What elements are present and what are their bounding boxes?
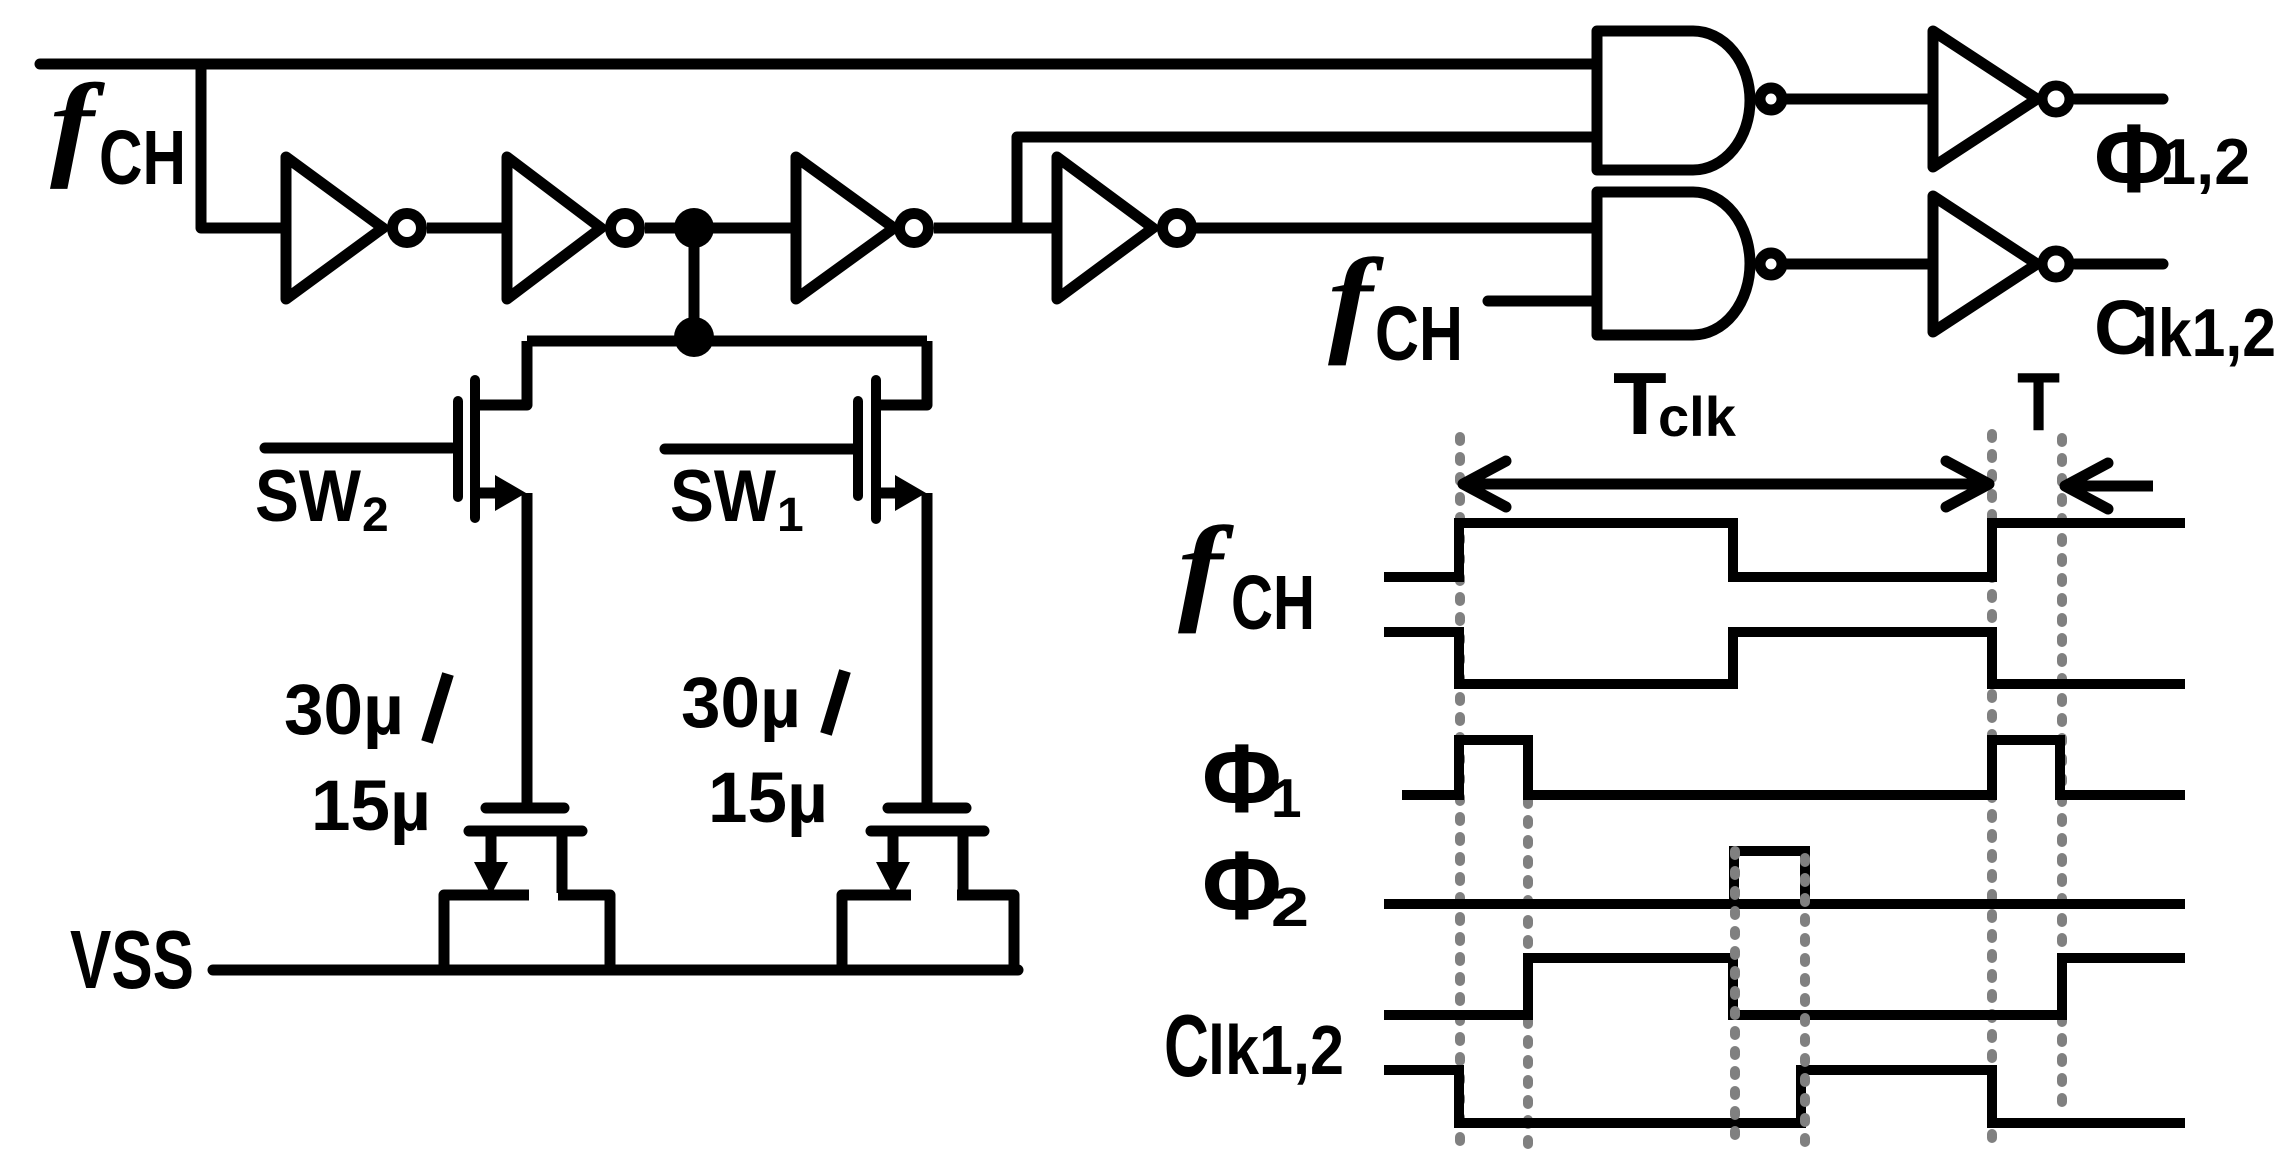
inverter U5 — [1933, 31, 2037, 167]
timing gridline t1 — [1455, 437, 1465, 1144]
capacitor C2 bulk arrowhead — [474, 862, 508, 895]
wire: U1 output to U2 input — [427, 223, 507, 234]
label 30u/15u for C2 — [284, 671, 448, 846]
timing gridline t5 — [1987, 434, 1997, 1148]
node B junction dot — [674, 317, 714, 357]
MOS capacitor C2 — [444, 808, 610, 965]
wire: vertical drop from bus to inverter chain input — [201, 59, 286, 228]
wire: inverter U6 output (Clk 1,2) — [2075, 259, 2163, 270]
wire: fCH stub into NAND G2 input B — [1488, 296, 1597, 307]
svg-text:1,2: 1,2 — [2160, 125, 2250, 198]
inverter U4 — [1057, 157, 1153, 299]
svg-text:CH: CH — [1231, 560, 1315, 646]
svg-text:CH: CH — [1375, 291, 1463, 377]
timing: Tclk double-headed span arrow — [1462, 461, 1990, 507]
wire: inverter U5 output (phi 1,2) — [2075, 94, 2163, 105]
wire: drain bus between SW2 and SW1 through node B — [527, 336, 927, 347]
wire: fCH top bus to NAND G1 input A — [40, 59, 1597, 70]
timing: fCH waveform phase A — [1384, 523, 2185, 577]
timing: T left-pointing arrow — [2064, 463, 2153, 509]
label SW1 — [670, 456, 804, 542]
inverter U1 — [286, 157, 383, 299]
svg-text:1: 1 — [777, 489, 804, 542]
svg-text:1: 1 — [1271, 767, 1302, 829]
VSS rail — [213, 965, 1018, 976]
transistor SW2 (M2) — [265, 341, 527, 806]
timing gridline t4 — [1800, 858, 1810, 1146]
transistor SW2 source arrowhead — [495, 475, 526, 511]
label 30u/15u for C1 — [681, 664, 845, 838]
svg-text:Φ: Φ — [1202, 724, 1282, 833]
NAND gate G2 — [1597, 192, 1750, 335]
timing: phi1 waveform — [1402, 740, 2185, 795]
timing: Clk2 waveform — [1384, 1070, 2185, 1123]
label phi2 (timing) — [1202, 831, 1309, 940]
svg-text:Φ: Φ — [1202, 831, 1282, 940]
label Clk 1,2 (output) — [2094, 285, 2276, 371]
timing: fCH waveform phase B — [1384, 632, 2185, 684]
svg-text:15µ: 15µ — [708, 759, 828, 838]
inverter U3 — [796, 157, 894, 299]
svg-text:clk: clk — [1658, 385, 1737, 448]
svg-text:30µ: 30µ — [284, 671, 404, 750]
svg-text:C: C — [1164, 996, 1209, 1095]
svg-text:2: 2 — [1271, 876, 1309, 938]
wire: U2 output to node A and on to U3 input — [645, 223, 796, 234]
label Clk1,2 (timing) — [1164, 996, 1344, 1095]
transistor SW1 (M1) — [665, 341, 927, 806]
svg-text:lk1,2: lk1,2 — [1208, 1011, 1344, 1089]
svg-text:VSS: VSS — [70, 913, 194, 1006]
NAND gate G1 — [1597, 31, 1750, 170]
transistor SW1 source arrowhead — [895, 475, 926, 511]
timing gridline t3 — [1730, 851, 1740, 1146]
label SW2 — [255, 456, 389, 542]
timing: phi2 pulse — [1734, 851, 1805, 904]
timing: Clk1 waveform — [1384, 958, 2185, 1015]
label phi1 (timing) — [1202, 724, 1302, 833]
timing gridline t2 — [1523, 740, 1533, 1148]
wire: NAND G2 output to inverter U6 — [1786, 259, 1933, 270]
wire: tap riser from U3 output up to NAND G1 input B — [1017, 137, 1597, 228]
wire: node A down to node B — [689, 228, 700, 337]
wire: NAND G1 output to inverter U5 — [1786, 94, 1933, 105]
inverter U6 — [1933, 196, 2037, 332]
svg-text:15µ: 15µ — [311, 767, 431, 846]
timing gridline t6 — [2057, 438, 2067, 1106]
label fCH (top left input) — [50, 61, 186, 201]
svg-text:lk1,2: lk1,2 — [2141, 295, 2276, 371]
label fCH (timing) — [1178, 503, 1315, 646]
svg-text:2: 2 — [362, 489, 389, 542]
inverter U2 — [507, 157, 601, 299]
node A junction dot — [674, 208, 714, 248]
svg-text:30µ: 30µ — [681, 664, 801, 743]
label fCH (NAND G2 input) — [1328, 235, 1463, 377]
svg-text:SW: SW — [255, 456, 361, 537]
wire: U4 output to NAND G2 input A — [1196, 223, 1597, 234]
timing: phi2 baseline — [1384, 899, 2185, 909]
capacitor C1 bulk arrowhead — [876, 862, 910, 895]
wire: U3 output to U4 input — [934, 223, 1057, 234]
svg-text:CH: CH — [99, 115, 186, 201]
svg-text:T: T — [2017, 356, 2060, 449]
label phi 1,2 (output) — [2094, 104, 2250, 213]
label Tclk — [1613, 354, 1737, 453]
MOS capacitor C1 — [842, 808, 1014, 965]
svg-text:SW: SW — [670, 456, 776, 537]
